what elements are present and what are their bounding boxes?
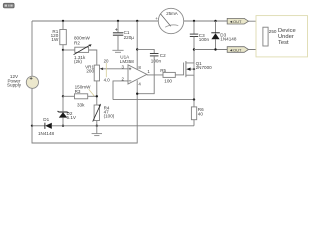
12V power supply xyxy=(7,74,39,88)
svg-text:C2: C2 xyxy=(160,53,166,58)
svg-text:220µ: 220µ xyxy=(124,35,135,40)
zener D2 xyxy=(58,111,77,120)
resistor DUT 250 xyxy=(263,27,277,46)
wire R2 left lead xyxy=(63,49,75,51)
svg-text:5.1V: 5.1V xyxy=(67,115,77,120)
rheostat R4 xyxy=(93,104,115,122)
node source R6 xyxy=(193,98,195,100)
wire tag to DUT bottom xyxy=(249,46,266,50)
node R3 left xyxy=(62,95,64,97)
resistor R1 xyxy=(51,29,67,45)
diode D1 xyxy=(38,117,55,136)
wire supply bottom xyxy=(31,88,33,125)
wire R6 leads xyxy=(193,100,195,107)
svg-text:◄OUT: ◄OUT xyxy=(229,47,242,52)
wire feedback to source node xyxy=(113,99,194,101)
wire ground return to pin 4 xyxy=(32,80,137,143)
svg-text:250: 250 xyxy=(269,29,277,34)
annotation leader 150mW xyxy=(89,89,94,95)
node D2 ground rail xyxy=(62,125,64,127)
wire R2 right to VR1 top xyxy=(89,50,97,65)
wire bus left column down xyxy=(62,50,64,96)
node supply minus xyxy=(31,125,33,127)
node R2 left xyxy=(62,49,64,51)
wire ground rail xyxy=(52,125,194,127)
svg-text:33k: 33k xyxy=(77,103,85,108)
svg-text:R3: R3 xyxy=(75,89,81,94)
capacitor C1 xyxy=(113,21,134,50)
op-amp U1A xyxy=(120,55,151,87)
svg-text:25mA: 25mA xyxy=(166,11,178,16)
resistor R5 xyxy=(160,68,175,83)
node C2 top xyxy=(136,48,138,50)
wire R5 to gate xyxy=(175,74,183,76)
ground symbol xyxy=(92,126,102,136)
svg-text:20: 20 xyxy=(104,58,109,63)
svg-text:1W: 1W xyxy=(51,37,59,42)
wire top rail left xyxy=(32,20,158,22)
node R3 right xyxy=(96,95,98,97)
transistor Q1 xyxy=(184,50,213,100)
capacitor C3 xyxy=(190,21,210,50)
logo xyxy=(3,3,14,8)
tag OUT- xyxy=(227,47,248,53)
node C1 top xyxy=(117,20,119,22)
capacitor C2 xyxy=(137,49,166,93)
node pin8 top xyxy=(136,20,138,22)
svg-text:200: 200 xyxy=(86,69,94,74)
node ground rail R4 xyxy=(96,125,98,127)
potentiometer VR1 xyxy=(85,64,103,81)
node R1 top xyxy=(62,20,64,22)
svg-text:◄OUT: ◄OUT xyxy=(229,19,242,24)
wire D2 bottom xyxy=(62,118,64,126)
wire VR1 bottom xyxy=(96,81,98,105)
svg-text:R5: R5 xyxy=(160,68,166,73)
wire R3 right lead xyxy=(88,95,97,97)
rheostat R2 xyxy=(74,36,92,65)
node D3 bottom xyxy=(214,48,216,50)
svg-text:40: 40 xyxy=(198,112,204,117)
svg-text:100: 100 xyxy=(164,79,172,84)
node C3 top xyxy=(193,20,195,22)
tag OUT+ xyxy=(227,18,248,24)
svg-text:1N4148: 1N4148 xyxy=(38,131,55,136)
wire ground rail left xyxy=(32,125,45,127)
ammeter M1 xyxy=(155,8,183,33)
svg-text:D1: D1 xyxy=(43,117,49,122)
DUT box xyxy=(256,16,308,57)
svg-text:R2: R2 xyxy=(74,40,80,45)
node C2 bottom pin4 xyxy=(136,93,138,95)
svg-text:100n: 100n xyxy=(199,37,210,42)
wire R1 bottom lead xyxy=(62,45,64,50)
resistor R3 xyxy=(75,85,92,108)
wire pin 2 xyxy=(113,81,128,100)
wire supply top xyxy=(31,21,33,76)
wire VR1 wiper to pin 3 xyxy=(103,68,128,70)
wire R4 bottom xyxy=(96,121,98,126)
wire output net xyxy=(194,49,227,51)
resistor R6 xyxy=(191,107,204,120)
svg-text:LM358: LM358 xyxy=(120,59,134,64)
wire output pin 1 xyxy=(147,74,163,76)
wire R3 left lead xyxy=(63,95,75,97)
svg-text:+: + xyxy=(155,16,158,21)
svg-text:4.0: 4.0 xyxy=(104,78,111,83)
ground C1 xyxy=(112,50,123,52)
wire tag to DUT top xyxy=(249,21,266,27)
wire R1 top lead xyxy=(62,21,64,30)
annotation probe line xyxy=(105,63,107,77)
node C3 bottom xyxy=(193,48,195,50)
svg-text:2N7000: 2N7000 xyxy=(196,65,213,70)
label device under test xyxy=(278,28,296,46)
node D3 top xyxy=(214,20,216,22)
wire pin 8 xyxy=(136,21,138,70)
svg-text:(2k): (2k) xyxy=(74,59,82,64)
svg-text:Supply: Supply xyxy=(7,83,22,88)
wire top rail right of meter xyxy=(184,20,228,22)
svg-text:100n: 100n xyxy=(151,59,162,64)
wire zener column xyxy=(62,96,64,111)
svg-text:1N4148: 1N4148 xyxy=(220,36,237,41)
diode D3 xyxy=(211,21,237,50)
svg-text:Test: Test xyxy=(278,40,289,46)
svg-text:(100): (100) xyxy=(104,114,115,119)
